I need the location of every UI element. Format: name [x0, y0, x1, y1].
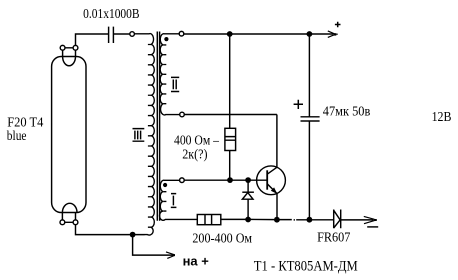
junction dot rail at emitter [274, 217, 280, 223]
svg-text:12В: 12В [432, 110, 452, 125]
junction dot top rail right [307, 31, 313, 37]
lamp EL1 tube [52, 57, 86, 213]
transistor Q1 base bar [266, 170, 268, 189]
wire top rail to R1 [229, 34, 231, 128]
label III [133, 129, 145, 142]
bottom rail tiny dot in gap [294, 219, 295, 220]
plus sign top [335, 22, 341, 28]
junction dot bottom left [130, 232, 136, 238]
winding III [134, 34, 154, 235]
lamp top filament [63, 57, 76, 66]
wire D1 to bottom rail [247, 199, 249, 219]
label 200-400 Om [192, 232, 252, 247]
svg-text:на +: на + [183, 255, 209, 269]
resistor R2 200-400 Om box [197, 215, 221, 225]
label 12V [432, 110, 452, 125]
junction dot base at R1 [227, 177, 233, 183]
svg-text:2к(?): 2к(?) [182, 148, 208, 163]
diode D1 cathode bar [242, 191, 254, 193]
wire winding II bottom to collector [184, 114, 277, 116]
capacitor C1 plates [109, 27, 114, 43]
wire top rail to C2 [308, 34, 310, 117]
terminal circle node [130, 32, 135, 37]
capacitor C2 plus [294, 100, 303, 109]
label 0.01x1000V [83, 7, 140, 22]
svg-text:T1 - КТ805АМ-ДМ: T1 - КТ805АМ-ДМ [254, 258, 358, 274]
winding II polarity dot [164, 37, 168, 41]
label na plus [183, 255, 209, 269]
bottom output dash [367, 226, 378, 228]
junction dot top rail left [227, 31, 233, 37]
wire C1 to terminal circle [113, 33, 129, 35]
winding I polarity dot [163, 183, 167, 187]
diode D1 triangle [242, 193, 253, 200]
wire R1 to base wire [229, 151, 231, 181]
winding II bottom terminal circle [180, 112, 185, 117]
resistor R1 400 Om box [225, 128, 236, 150]
label FR607 [317, 231, 350, 246]
bottom rail left segment [221, 218, 292, 220]
winding II [160, 34, 180, 115]
svg-text:blue: blue [7, 129, 27, 144]
winding I [160, 180, 198, 220]
winding II top terminal circle [179, 31, 184, 36]
transistor Q1 emitter [267, 184, 277, 220]
lamp bottom pin circles [60, 220, 78, 225]
wire base junction to D1 [247, 180, 249, 192]
label II [171, 77, 179, 91]
bottom output arrow [364, 216, 377, 223]
transistor Q1 collector [267, 115, 277, 175]
svg-text:47мк 50в: 47мк 50в [323, 105, 371, 120]
label T1 KT805AM-DM [254, 258, 358, 274]
lamp bottom pin stubs [62, 213, 75, 223]
label F20 T4 [7, 115, 43, 130]
lamp top pin circles [60, 45, 78, 50]
label 2k [182, 148, 208, 163]
svg-text:200-400 Ом: 200-400 Ом [192, 232, 252, 247]
wire lamp bottom to winding III bottom [76, 225, 145, 235]
transformer T1 core [157, 32, 159, 221]
top output arrow [328, 31, 338, 38]
svg-text:0.01x1000В: 0.01x1000В [83, 7, 140, 22]
bottom rail right segment [296, 219, 334, 221]
lamp top pin stubs [63, 48, 76, 57]
lamp bottom filament [62, 203, 77, 212]
base wire [184, 179, 267, 181]
junction dot rail at C2 [307, 217, 313, 223]
winding I top terminal circle [180, 178, 185, 183]
label I [171, 194, 177, 208]
svg-text:400 Ом –: 400 Ом – [174, 134, 220, 149]
top rail wire [184, 33, 333, 35]
junction dot rail at D1 [245, 217, 251, 223]
diode D2 FR607 [334, 210, 341, 229]
na plus arrow [133, 235, 175, 259]
junction dot base at D1 [245, 177, 251, 183]
label 400 Om [174, 134, 220, 149]
label blue [7, 129, 27, 144]
transistor Q1 emitter arrow [271, 187, 278, 194]
wire C2 to bottom rail [308, 121, 310, 220]
capacitor C2 plates [301, 117, 320, 121]
wire D2 to output arrow [341, 219, 373, 221]
svg-text:FR607: FR607 [317, 231, 350, 246]
transistor Q1 circle [257, 166, 286, 195]
wire lamp top pin to top rail [76, 34, 109, 45]
label 47mk 50v [323, 105, 371, 120]
